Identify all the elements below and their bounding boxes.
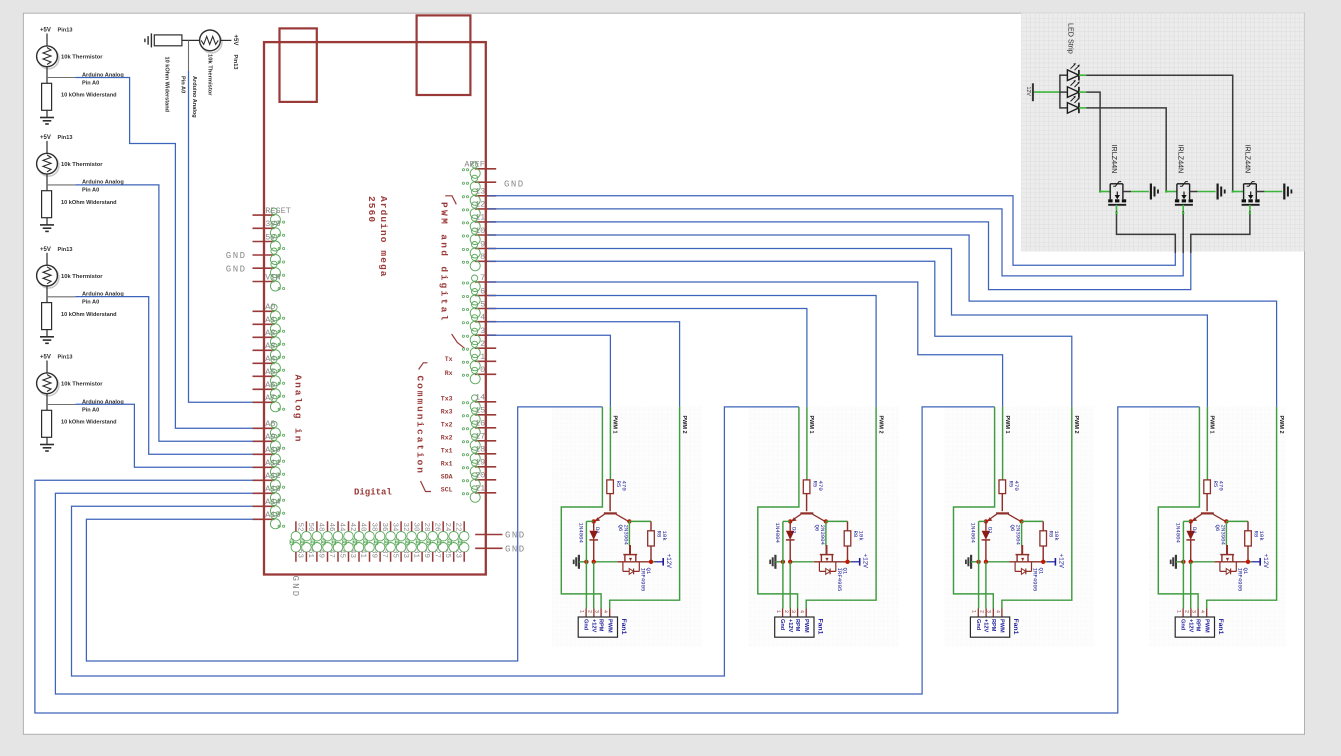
junction dot collector (fan 3)	[1019, 519, 1023, 523]
pin VIN (left side)	[253, 281, 275, 283]
junction dots rail (fan 2)	[781, 560, 785, 564]
brace bottom of PWM and digital	[452, 334, 465, 348]
svg-text:A7: A7	[265, 393, 275, 403]
svg-text:13: 13	[475, 187, 485, 197]
brace top of Communication	[419, 363, 428, 370]
svg-text:22: 22	[453, 523, 461, 532]
svg-text:1N4004: 1N4004	[577, 523, 584, 544]
svg-text:7: 7	[480, 273, 485, 283]
net wire pin8 to fan3 PWM2	[488, 261, 1072, 407]
pin 14 (right side)	[475, 401, 496, 403]
pin A12 (left side)	[253, 479, 275, 481]
brace bottom of Communication	[421, 481, 432, 492]
svg-text:PWM: PWM	[606, 619, 612, 633]
bottom pin column 48/49	[327, 521, 329, 532]
junction dots rail (fan 4)	[1181, 560, 1185, 564]
diode D1 1N4004 (fan 3)	[985, 521, 987, 530]
svg-text:A12: A12	[265, 471, 280, 481]
svg-text:A2: A2	[265, 328, 275, 338]
svg-text:43: 43	[348, 549, 356, 559]
+12V supply (fan 3)	[1047, 561, 1056, 563]
wire pin2 +12V (fan 4)	[1190, 562, 1192, 609]
svg-text:2: 2	[979, 610, 985, 613]
svg-text:10k Thermistor: 10k Thermistor	[207, 54, 213, 96]
svg-text:2N3904: 2N3904	[819, 525, 826, 546]
pin 11 (right side)	[475, 221, 496, 223]
diode D1 1N4004 (fan 4)	[1190, 521, 1192, 530]
svg-text:PWM 2: PWM 2	[1278, 416, 1284, 434]
svg-text:48: 48	[317, 523, 325, 532]
svg-text:Arduino mega: Arduino mega	[378, 196, 389, 278]
svg-text:PWM and digital: PWM and digital	[439, 202, 450, 323]
Arduino mega body outline	[264, 42, 486, 574]
svg-text:Fan1: Fan1	[817, 619, 824, 635]
svg-text:4: 4	[1199, 610, 1205, 613]
svg-text:10 kOhm Widerstand: 10 kOhm Widerstand	[61, 420, 117, 426]
svg-text:Pin A0: Pin A0	[180, 76, 186, 93]
wire resistor to ground 4	[46, 330, 48, 337]
pin 15 (right side)	[475, 414, 496, 416]
resistor R8 10k (fan 3)	[1042, 521, 1044, 530]
svg-text:SDA: SDA	[441, 474, 453, 481]
net wire fan1 RPM loop to A15	[86, 407, 602, 661]
svg-text:2N3904: 2N3904	[1219, 525, 1226, 546]
wire RPM loop (fan 1)	[561, 407, 602, 609]
svg-text:Analog in: Analog in	[293, 375, 304, 444]
svg-text:Pin A0: Pin A0	[82, 407, 99, 413]
svg-text:1N4004: 1N4004	[774, 523, 781, 544]
svg-text:A13: A13	[265, 484, 280, 494]
brace top of PWM and digital	[445, 196, 456, 205]
pin 17 (right side)	[475, 440, 496, 442]
svg-text:10 kOhm Widerstand: 10 kOhm Widerstand	[61, 312, 117, 318]
mosfet 2 source wire down	[1182, 205, 1184, 211]
fan circuit 4 grid patch	[1149, 406, 1286, 647]
pin 19 (right side)	[475, 466, 496, 468]
svg-text:PWM 1: PWM 1	[1209, 416, 1215, 434]
Arduino power jack box	[417, 15, 471, 95]
mosfet Q1 IRF4905 (fan 2)	[826, 545, 828, 555]
svg-text:5V: 5V	[265, 232, 276, 242]
svg-text:A9: A9	[265, 432, 275, 442]
pin 22 GND stub right	[475, 534, 502, 536]
svg-text:RPM: RPM	[990, 619, 996, 632]
svg-text:10k: 10k	[661, 531, 668, 542]
svg-text:32: 32	[401, 523, 409, 532]
Arduino USB connector box	[280, 28, 317, 102]
svg-text:LED Strip: LED Strip	[1067, 23, 1076, 54]
mosfet Q1 IRF4905 (fan 1)	[629, 545, 631, 555]
pin 18 (right side)	[475, 453, 496, 455]
wire junction thermistor2 down	[188, 40, 190, 71]
mosfet 1 channel pads	[1108, 199, 1112, 202]
net wire pin12 to LED mosfet 2	[488, 209, 1183, 276]
svg-text:16: 16	[475, 419, 485, 429]
svg-text:Gnd: Gnd	[583, 619, 589, 631]
bottom pin column 36/37	[390, 521, 392, 532]
svg-text:21: 21	[475, 484, 485, 494]
wire LED2 to mosfet 1 gate	[1086, 92, 1100, 191]
wire main rail (fan 4)	[1191, 561, 1215, 563]
transistor Q6 2N3904 (fan 4)	[1201, 512, 1214, 514]
svg-text:Fan1: Fan1	[1012, 619, 1019, 635]
svg-text:Communication: Communication	[415, 376, 426, 475]
resistor R5 470 (fan 3)	[999, 480, 1006, 494]
LED 1	[1060, 74, 1068, 76]
svg-text:Rx3: Rx3	[441, 409, 453, 416]
svg-text:GND: GND	[504, 180, 525, 190]
junction dot emitter (fan 1)	[592, 519, 596, 523]
resistor 10k Widerstand 1	[42, 83, 52, 110]
wire mosfet3 source down to net	[1191, 216, 1250, 253]
svg-text:1: 1	[971, 610, 977, 613]
svg-text:52: 52	[296, 523, 304, 532]
svg-text:45: 45	[338, 549, 346, 559]
wire junction to net label 3	[47, 184, 76, 186]
wire collector to R8 (fan 4)	[1226, 520, 1248, 522]
pin GND (left side)	[253, 254, 275, 256]
svg-text:24: 24	[443, 523, 451, 533]
diode D1 1N4004 (fan 2)	[789, 521, 791, 530]
svg-text:+5V: +5V	[40, 135, 51, 141]
wire mosfet1 source down to net	[1117, 216, 1176, 253]
net wire pin3 to fan1 PWM1	[488, 335, 610, 407]
ground symbol (fan 1)	[578, 555, 580, 569]
svg-text:Pin13: Pin13	[58, 247, 73, 253]
pin A10 (left side)	[253, 453, 275, 455]
wire PWM1 (fan 4)	[1206, 407, 1208, 480]
thermistor TH5 (10k)	[38, 375, 59, 396]
svg-text:Gnd: Gnd	[1180, 619, 1186, 631]
svg-text:47: 47	[327, 549, 335, 558]
wire LED3 to mosfet 2 gate	[1086, 108, 1166, 192]
12V supply bar	[1032, 83, 1034, 101]
svg-text:10k: 10k	[858, 531, 865, 542]
transistor Q6 2N3904 (fan 3)	[996, 512, 1009, 514]
wire collector to R8 (fan 2)	[826, 520, 848, 522]
svg-text:51: 51	[306, 549, 314, 559]
svg-text:18: 18	[475, 445, 485, 455]
wire collector to R8 (fan 3)	[1022, 520, 1044, 522]
pin 5 (right side)	[475, 308, 496, 310]
svg-text:+12V: +12V	[1188, 619, 1194, 632]
svg-text:Arduino Analog: Arduino Analog	[191, 76, 197, 118]
svg-text:29: 29	[422, 549, 430, 558]
svg-text:1: 1	[1176, 610, 1182, 613]
pin 4 (right side)	[475, 321, 496, 323]
wire R5 to base (fan 3)	[1001, 494, 1003, 512]
wire R5 to base (fan 1)	[609, 494, 611, 512]
svg-text:D1: D1	[791, 527, 798, 534]
svg-text:PWM: PWM	[999, 619, 1005, 633]
wire gnd pin1 (fan 4)	[1182, 521, 1184, 608]
svg-text:10: 10	[475, 226, 485, 236]
wire PWM1 (fan 3)	[1002, 407, 1004, 480]
wire thermistor to resistor 1	[46, 67, 48, 84]
thermistor TH3 (10k)	[38, 155, 59, 176]
net wire pin11 to LED mosfet 3	[488, 222, 1191, 290]
pin 5V (left side)	[253, 241, 275, 243]
svg-text:2: 2	[480, 339, 485, 349]
svg-text:3V3: 3V3	[265, 219, 280, 229]
svg-text:+5V: +5V	[40, 247, 51, 253]
svg-text:Tx2: Tx2	[441, 422, 453, 429]
svg-text:Q1: Q1	[842, 568, 849, 575]
bottom pin column 26/27	[442, 521, 444, 532]
svg-text:Pin A0: Pin A0	[82, 80, 99, 86]
pin A5 (left side)	[253, 375, 275, 377]
junction dot emitter (fan 2)	[788, 519, 792, 523]
mosfet 1 drain rail to ground	[1123, 191, 1131, 193]
svg-text:30: 30	[411, 523, 419, 533]
wire junction to net label 1	[47, 77, 76, 79]
pin 2 (right side)	[475, 347, 496, 349]
wire emitter rail (fan 1)	[586, 520, 593, 522]
svg-text:IRLZ44N: IRLZ44N	[1243, 145, 1252, 174]
svg-text:Gnd: Gnd	[779, 619, 785, 631]
mosfet 3 source bar	[1242, 204, 1260, 206]
net wire pin7 to fan3 PWM1	[488, 282, 1003, 407]
wire junction to net label 4	[47, 296, 76, 298]
pin 3V3 (left side)	[253, 227, 275, 229]
svg-text:12V: 12V	[1025, 87, 1031, 97]
svg-text:+12V: +12V	[983, 619, 989, 632]
thermistor TH4 (10k)	[38, 267, 59, 288]
mosfet Q1 IRF4905 (fan 3)	[1021, 545, 1023, 555]
svg-text:Q1: Q1	[645, 568, 652, 575]
net wire pin4 to fan1 PWM2	[488, 322, 680, 407]
mosfet Q1 IRF4905 (fan 4)	[1226, 545, 1228, 555]
svg-text:10k: 10k	[1258, 531, 1265, 542]
mosfet 3 channel pads	[1242, 199, 1246, 202]
svg-text:Q1: Q1	[1037, 568, 1044, 575]
svg-text:36: 36	[380, 523, 388, 533]
ground (thermistor 3)	[40, 224, 54, 226]
thermistor TH1 (10k)	[38, 48, 59, 69]
svg-text:Rx: Rx	[445, 370, 453, 377]
svg-text:3: 3	[594, 610, 600, 613]
wire PWM2 (fan 2)	[806, 407, 876, 609]
mosfet 2 channel pads	[1175, 199, 1179, 202]
bottom pin column 22/23	[463, 521, 465, 532]
svg-text:IRLZ44N: IRLZ44N	[1110, 145, 1119, 174]
junction squares (mosfet 2)	[1165, 190, 1167, 192]
resistor R5 470 (fan 4)	[1204, 480, 1211, 494]
wire collector to gate (fan 1)	[628, 521, 630, 545]
svg-text:+12V: +12V	[1262, 554, 1269, 569]
mosfet 3 drain rail to ground	[1256, 191, 1264, 193]
svg-text:Pin A0: Pin A0	[82, 188, 99, 194]
svg-text:D1: D1	[1191, 527, 1198, 534]
svg-text:SCL: SCL	[441, 487, 453, 494]
svg-text:1N4004: 1N4004	[1174, 523, 1181, 544]
svg-text:Tx3: Tx3	[441, 396, 453, 403]
ground symbol (mosfet 2)	[1216, 184, 1218, 200]
mosfet 1 source wire down	[1116, 205, 1118, 211]
pin 9 (right side)	[475, 248, 496, 250]
svg-text:470: 470	[621, 481, 628, 492]
svg-text:4: 4	[799, 610, 805, 613]
pin A3 (left side)	[253, 349, 275, 351]
svg-text:2: 2	[586, 610, 592, 613]
wire emitter rail (fan 3)	[979, 520, 986, 522]
bottom pin column 44/45	[348, 521, 350, 532]
wire pin2 +12V (fan 3)	[985, 562, 987, 609]
net wire thermistor3 to A9	[76, 185, 254, 441]
svg-text:42: 42	[348, 523, 356, 532]
wire +5V to thermistor 3	[46, 141, 48, 153]
wire PWM2 (fan 4)	[1207, 407, 1277, 609]
resistor 10k Widerstand 3	[42, 191, 52, 218]
svg-text:D1: D1	[594, 527, 601, 534]
svg-text:2: 2	[783, 610, 789, 613]
wire resistor to ground 5	[46, 437, 48, 444]
pin A13 (left side)	[253, 492, 275, 494]
pin A14 (left side)	[253, 505, 275, 507]
svg-text:25: 25	[443, 549, 451, 559]
svg-text:15: 15	[475, 406, 485, 416]
wire collector to gate (fan 4)	[1225, 521, 1227, 545]
svg-text:GND: GND	[226, 251, 247, 261]
svg-text:GND: GND	[226, 264, 247, 274]
svg-text:4: 4	[994, 610, 1000, 613]
svg-text:RPM: RPM	[598, 619, 604, 632]
svg-text:28: 28	[422, 523, 430, 532]
mosfet 2 drain rail to ground	[1190, 191, 1198, 193]
svg-text:470: 470	[1218, 481, 1225, 492]
bottom pin column 42/43	[358, 521, 360, 532]
svg-text:+12V: +12V	[787, 619, 793, 632]
wire thermistor to resistor 4	[46, 286, 48, 303]
svg-text:6: 6	[480, 286, 485, 296]
svg-text:GND: GND	[290, 576, 300, 599]
LED 3	[1060, 107, 1068, 109]
svg-text:2560: 2560	[366, 196, 377, 223]
ground symbol (mosfet 3)	[1283, 184, 1285, 200]
wire emitter rail (fan 4)	[1183, 520, 1190, 522]
pin GND (left side)	[253, 267, 275, 269]
junction squares (mosfet 3)	[1232, 190, 1234, 192]
svg-text:33: 33	[401, 549, 409, 559]
svg-text:1: 1	[579, 610, 585, 613]
svg-text:10k Thermistor: 10k Thermistor	[61, 382, 103, 388]
svg-text:A11: A11	[265, 458, 280, 468]
transistor Q6 2N3904 (fan 1)	[604, 512, 617, 514]
wire main rail (fan 1)	[594, 561, 618, 563]
net wire thermistor2 to A7	[189, 71, 254, 402]
net wire fan3 RPM loop to A13	[55, 407, 994, 694]
net wire fan4 RPM loop to A12	[35, 407, 1200, 713]
wire RPM loop (fan 3)	[954, 407, 995, 609]
wire PWM2 (fan 3)	[1002, 407, 1072, 609]
diode D1 1N4004 (fan 1)	[593, 521, 595, 530]
svg-text:GND: GND	[505, 531, 526, 541]
wire resistor to ground 3	[46, 218, 48, 225]
bottom pin column 38/39	[379, 521, 381, 532]
svg-text:VIN: VIN	[265, 272, 280, 282]
svg-text:+5V: +5V	[232, 35, 238, 46]
svg-text:46: 46	[327, 523, 335, 533]
svg-text:Gnd: Gnd	[975, 619, 981, 631]
wire collector to gate (fan 3)	[1021, 521, 1023, 545]
svg-text:A4: A4	[265, 354, 275, 364]
svg-text:41: 41	[359, 549, 367, 559]
svg-text:9: 9	[480, 239, 485, 249]
svg-text:10k Thermistor: 10k Thermistor	[61, 274, 103, 280]
svg-text:0: 0	[480, 365, 485, 375]
net wire pin9 to fan4 PWM1	[488, 249, 1207, 407]
connector Fan1 (fan 1)	[585, 609, 587, 618]
pin 23 GND stub right	[475, 547, 502, 549]
svg-text:39: 39	[369, 549, 377, 558]
bottom pin column 46/47	[337, 521, 339, 532]
mosfet IRLZ44N 2 gate	[1166, 191, 1177, 193]
ground symbol (fan 4)	[1175, 555, 1177, 569]
svg-text:23: 23	[453, 549, 461, 559]
pin RESET (left side)	[253, 214, 275, 216]
junction dots rail (fan 1)	[584, 560, 588, 564]
+12V supply (fan 2)	[851, 561, 860, 563]
svg-text:A5: A5	[265, 367, 275, 377]
wire collector to gate (fan 2)	[825, 521, 827, 545]
pin A15 (left side)	[253, 518, 275, 520]
net wire pin10 to fan4 PWM2	[488, 235, 1277, 407]
svg-text:27: 27	[432, 549, 440, 558]
net wire thermistor5 to A11	[76, 404, 254, 467]
svg-text:3: 3	[1191, 610, 1197, 613]
bottom pin column 52/53	[305, 521, 307, 532]
svg-text:Pin13: Pin13	[232, 55, 238, 70]
pin 6 (right side)	[475, 295, 496, 297]
svg-text:PWM 1: PWM 1	[808, 416, 814, 434]
svg-text:3: 3	[790, 610, 796, 613]
wire pin2 +12V (fan 1)	[593, 562, 595, 609]
ground symbol (mosfet 1)	[1150, 184, 1152, 200]
pin 21 (right side)	[475, 492, 496, 494]
svg-text:53: 53	[296, 549, 304, 559]
pin A7 (left side)	[253, 401, 275, 403]
wire +5V to thermistor 1	[46, 34, 48, 46]
mosfet 2 source bar	[1175, 204, 1193, 206]
svg-text:+5V: +5V	[40, 28, 51, 34]
svg-text:A1: A1	[265, 315, 275, 325]
svg-text:RESET: RESET	[265, 206, 291, 216]
svg-text:2: 2	[1183, 610, 1189, 613]
net wire thermistor1 to A8	[76, 78, 254, 429]
pin 20 (right side)	[475, 479, 496, 481]
svg-text:2N3904: 2N3904	[622, 525, 629, 546]
svg-text:470: 470	[1013, 481, 1020, 492]
wire resistor2 to junction	[182, 39, 200, 41]
thermistor TH2 (10k, rotated)	[201, 32, 222, 53]
LED 2	[1060, 91, 1068, 93]
svg-text:AREF: AREF	[464, 160, 484, 170]
ground (thermistor 1)	[40, 117, 54, 119]
svg-text:8: 8	[480, 252, 485, 262]
wire resistor to ground 1	[46, 110, 48, 117]
svg-text:5: 5	[480, 299, 485, 309]
wire collector to R8 (fan 1)	[629, 520, 651, 522]
wire main rail (fan 3)	[986, 561, 1010, 563]
bottom pin column 40/41	[369, 521, 371, 532]
svg-text:A8: A8	[265, 419, 275, 429]
pin A2 (left side)	[253, 336, 275, 338]
svg-text:Fan1: Fan1	[1217, 619, 1224, 635]
connector Fan1 (fan 2)	[782, 609, 784, 618]
svg-text:10 kOhm Widerstand: 10 kOhm Widerstand	[61, 93, 117, 99]
pin A1 (left side)	[253, 323, 275, 325]
svg-text:PWM: PWM	[803, 619, 809, 633]
